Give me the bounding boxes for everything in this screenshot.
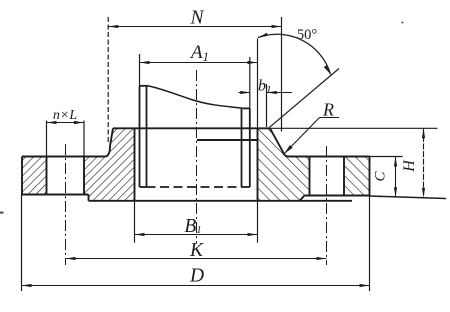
hatch left hub wall and inner plate [84,128,135,201]
nxL dimension line [47,122,85,124]
A1 dimension extension line left [139,54,141,86]
svg-text:R: R [322,100,334,120]
svg-text:n×L: n×L [53,108,77,123]
B1 extension line left [134,201,136,243]
pipe break cap left [140,85,149,87]
B1 extension line right [257,201,259,243]
D arrow right [360,284,370,287]
svg-text:C: C [373,171,389,182]
C arrow top [394,157,397,167]
pipe outer extension line right [249,57,251,108]
A1 arrow right [248,61,258,64]
A1 arrow left [140,61,150,64]
b1 arrow right [267,91,277,94]
arc arrow lower [324,65,331,74]
N arrow left [108,25,118,28]
bolt hole right wall right [343,157,345,196]
pipe inner wall left [146,86,148,187]
C arrow bottom [394,187,397,197]
pipe break curve [149,86,243,108]
D dimension line [22,285,370,287]
flange left edge [21,157,23,195]
svg-text:D: D [189,266,204,287]
arc arrow upper [258,33,268,38]
bolt hole left wall right [83,157,85,195]
nxL extension line left [46,121,48,157]
svg-text:50°: 50° [297,27,318,43]
bore wall left [134,128,136,201]
D extension line right [369,196,371,292]
hatch left outer plate block [22,157,47,195]
K dimension line [66,258,327,260]
pipe break cap right [243,107,250,109]
K arrow left [66,257,76,260]
D arrow left [22,284,32,287]
hatch right outer plate block [344,157,370,196]
centerline flange axis [196,70,198,244]
K arrow right [317,257,327,260]
pipe end cap left [140,186,147,188]
boss bottom face [89,200,353,202]
hub top face [113,127,270,129]
H dimension line [423,128,425,198]
b1 arrow left [240,91,250,94]
hub left outer taper [110,128,113,146]
N dimension line [108,26,281,28]
R leader arrow [284,145,292,154]
hatch right hub bevel wall and inner plate [258,128,310,201]
boss step left [88,195,90,201]
N arrow right [272,25,282,28]
50 degree angle arc [258,34,331,74]
fillet R left at hub base [105,146,110,157]
b1 dimension line left tail [239,92,251,94]
C/H bottom extension line [370,196,447,199]
hub right weld bevel 50 deg [270,128,284,154]
H top extension line [270,127,438,129]
N dimension extension line right [281,17,283,132]
pipe outer wall right [249,108,251,187]
N dimension extension line left (dashed) [107,17,109,143]
B1 arrow right [248,233,258,236]
pipe outer wall left [139,86,141,187]
C dimension line [395,157,397,198]
flange bottom face right [305,195,370,197]
svg-text:K: K [189,240,204,261]
centerline right bolt hole [326,146,328,265]
D extension line left [21,195,23,292]
nxL arrow left [47,121,57,124]
flange bottom face left [22,194,89,196]
R leader line [284,118,319,154]
bolt hole left wall left [46,157,48,195]
fillet R right at bevel base [284,154,289,157]
B1 dimension line [135,234,258,236]
b1 extension line right (bevel corner extended) [266,84,268,127]
50 degree bevel construction diagonal [270,69,340,128]
flange top face right [289,156,370,158]
pipe end cap right [242,186,250,188]
nxL arrow right [74,121,84,124]
bore wall right [257,128,259,201]
b1 dimension line right tail [267,92,292,94]
C top extension line [370,156,403,158]
scan speck [402,22,404,24]
centerline left bolt hole [65,144,67,265]
hidden bore end dashed line [147,186,242,188]
B1 arrow left [135,233,145,236]
scan speck left edge [0,212,4,214]
H arrow top [422,128,425,138]
svg-text:H: H [401,159,418,173]
pipe inner wall right [241,108,243,187]
flange right edge [369,157,371,196]
boss step right [300,196,305,201]
A1 dimension line [140,62,258,64]
R underline [320,117,340,119]
svg-text:N: N [189,8,204,29]
H arrow bottom [422,188,425,198]
bolt hole right wall left [309,157,311,196]
flange top face left [22,156,105,158]
nxL extension line right [83,121,85,157]
A1/b1 shared extension line (bore wall extended) [257,39,259,129]
socket shoulder line [197,139,258,141]
